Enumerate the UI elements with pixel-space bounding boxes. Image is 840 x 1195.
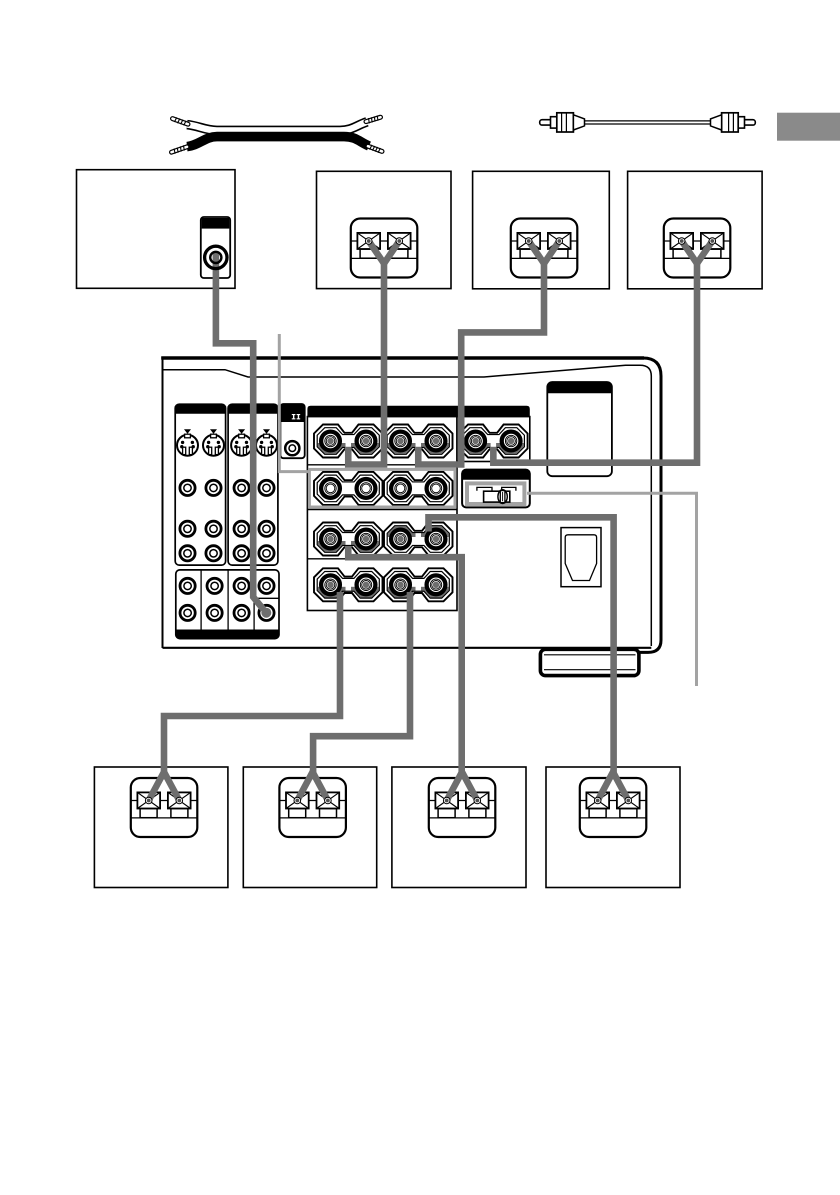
bottom box 3 (speaker) bbox=[392, 767, 526, 888]
subwoofer pre-out plugged jack dot bbox=[261, 608, 271, 618]
speaker wire Y-split top box 3 bbox=[678, 238, 715, 264]
video/audio jack group panel 1 bbox=[175, 404, 225, 565]
speaker binding-post pair row2 pair2 bbox=[384, 472, 453, 505]
speaker cable illustration bbox=[172, 116, 383, 154]
S-video jack col 213.5 bbox=[203, 434, 224, 456]
input select triangle marker x=241.6 bbox=[238, 429, 245, 434]
S-video II panel bbox=[280, 404, 304, 458]
RCA jack block (187.6,612.9) bbox=[180, 605, 195, 620]
RCA jack block (214.6,585.9) bbox=[207, 578, 222, 593]
RCA jack block (241.6,612.9) bbox=[234, 605, 249, 620]
impedance selector switch panel bbox=[462, 470, 530, 508]
front speaker box (top 1) bbox=[317, 171, 452, 288]
subwoofer jack rings (over wire) bbox=[205, 246, 227, 268]
speaker wire Y-split bottom box 1 bbox=[145, 772, 182, 804]
bottom box 1 (speaker) bbox=[94, 767, 228, 888]
speaker binding-post pair row1 pair1 bbox=[314, 425, 383, 459]
impedance switch icon bbox=[477, 487, 516, 503]
monaural audio cable illustration bbox=[540, 113, 756, 132]
wire: row4 pair2 to bottom box2 bbox=[313, 592, 410, 774]
input select triangle marker x=266.5 bbox=[263, 429, 270, 434]
speaker binding-post pair row2 pair1 bbox=[314, 472, 383, 505]
speaker terminal block right (row1 pair3) bbox=[457, 417, 530, 462]
RCA jack block (266.5,585.9) bbox=[259, 578, 274, 593]
speaker binding-post pair row4 pair1 bbox=[314, 568, 383, 602]
receiver bevel contour bbox=[163, 365, 652, 646]
RCA jack (187.5,528.8) bbox=[180, 521, 195, 536]
wire: row3 pair1 to bottom box3 bbox=[348, 546, 461, 774]
speaker terminal panel bottom box 4 bbox=[580, 778, 647, 837]
speaker terminal panel top box 3 bbox=[664, 219, 731, 278]
RCA jack (266.5,487.9) bbox=[259, 480, 274, 495]
wire: top box2 to row1 pair2 bbox=[418, 262, 544, 465]
RCA jack (266.5,553.3) bbox=[259, 546, 274, 561]
RCA jack block (241.6,585.9) bbox=[234, 578, 249, 593]
speaker terminal block rows 1-4 bbox=[307, 417, 457, 611]
input select triangle marker x=213.5 bbox=[210, 429, 217, 434]
speaker terminals header bar bbox=[307, 406, 529, 417]
RCA jack (213.5,528.8) bbox=[206, 521, 221, 536]
RCA jack (213.5,487.9) bbox=[206, 480, 221, 495]
speaker terminal panel top box 1 bbox=[351, 219, 418, 278]
bottom box 2 (speaker) bbox=[243, 767, 376, 888]
speaker terminal panel bottom box 1 bbox=[131, 778, 198, 837]
subwoofer input jack panel bbox=[201, 217, 230, 278]
video/audio jack group panel 2 bbox=[228, 404, 278, 565]
S-video jack col 241.6 bbox=[231, 434, 252, 456]
speaker terminal panel top box 2 bbox=[511, 219, 578, 278]
center speaker box (top 2) bbox=[473, 171, 610, 288]
wire: top box1 to row1 pair1 bbox=[348, 262, 384, 465]
gray callout line from impedance switch bbox=[527, 493, 697, 686]
RCA jack block (187.6,585.9) bbox=[180, 578, 195, 593]
S-video jack col 187.5 bbox=[177, 434, 198, 456]
impedance switch gray highlight frame bbox=[467, 483, 524, 504]
speaker binding-post pair row3 pair1 bbox=[314, 523, 383, 557]
speaker terminal panel bottom box 3 bbox=[429, 778, 496, 837]
receiver foot bbox=[540, 649, 639, 675]
RCA jack (241.6,528.8) bbox=[234, 521, 249, 536]
AC power inlet bbox=[561, 528, 601, 587]
RCA jack (241.6,487.9) bbox=[234, 480, 249, 495]
RCA jack (187.5,553.3) bbox=[180, 546, 195, 561]
speaker binding-post pair row4 pair2 bbox=[384, 568, 453, 602]
RCA jack (213.5,553.3) bbox=[206, 546, 221, 561]
speaker wire Y-split top box 1 bbox=[365, 238, 402, 264]
wire: row4 pair1 to bottom box1 bbox=[164, 592, 340, 774]
antenna terminal panel bbox=[547, 382, 612, 476]
RCA jack (187.5,487.9) bbox=[180, 480, 195, 495]
RCA jack (241.6,553.3) bbox=[234, 546, 249, 561]
speaker terminal panel bottom box 2 bbox=[279, 778, 346, 837]
wire: top box3 to row1 pair3 bbox=[493, 262, 697, 463]
gray highlight frame around row2 terminals bbox=[309, 469, 455, 507]
wire: row3 pair2 to bottom box4 bbox=[429, 517, 614, 773]
speaker wire Y-split bottom box 3 bbox=[443, 772, 480, 804]
audio out jack block bbox=[176, 570, 279, 639]
speaker binding-post pair row1 pair3 bbox=[459, 425, 527, 459]
speaker binding-post pair row3 pair2 bbox=[384, 522, 453, 556]
input select triangle marker x=187.5 bbox=[184, 429, 191, 434]
speaker binding-post pair row1 pair2 bbox=[384, 425, 453, 459]
speaker wire Y-split bottom box 2 bbox=[294, 772, 331, 804]
subwoofer box bbox=[77, 170, 236, 289]
RCA jack block (266.5,612.9) bbox=[259, 605, 274, 620]
wire: subwoofer to SUB WOOFER pre-out bbox=[216, 252, 264, 610]
receiver rear panel body bbox=[161, 358, 661, 652]
gray page tab bbox=[777, 113, 840, 141]
speaker wire Y-split bottom box 4 bbox=[594, 772, 631, 804]
gray callout line to FRONT B terminals bbox=[279, 334, 309, 472]
front speaker box (top 3) bbox=[628, 171, 763, 288]
RCA jack block (214.6,612.9) bbox=[207, 605, 222, 620]
bottom box 4 (speaker) bbox=[546, 767, 680, 888]
RCA jack (266.5,528.8) bbox=[259, 521, 274, 536]
S-video jack col 266.5 bbox=[256, 434, 277, 456]
II panel RCA jack bbox=[285, 441, 299, 455]
speaker wire Y-split top box 2 bbox=[525, 238, 562, 264]
